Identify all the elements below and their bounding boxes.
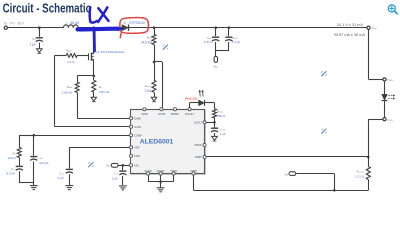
svg-text:LDOO: LDOO — [194, 120, 201, 124]
svg-text:GATE: GATE — [134, 125, 141, 129]
svg-text:560 Ω: 560 Ω — [217, 114, 226, 118]
svg-text:STL120N4LF6AG: STL120N4LF6AG — [101, 50, 126, 54]
svg-text:OVTB: OVTB — [158, 112, 165, 116]
svg-text:8.2 nF: 8.2 nF — [6, 172, 15, 176]
svg-text:1 µF: 1 µF — [58, 176, 64, 180]
svg-text:COMP: COMP — [134, 133, 142, 137]
svg-text:715 mΩ: 715 mΩ — [99, 90, 110, 94]
svg-text:TPAD: TPAD — [170, 169, 177, 173]
svg-text:Circuit - Schematic: Circuit - Schematic — [3, 2, 91, 15]
svg-text:2.2 Ω: 2.2 Ω — [67, 60, 75, 64]
svg-text:STPS2L40: STPS2L40 — [129, 21, 145, 25]
svg-text:Red LED: Red LED — [185, 96, 198, 100]
svg-text:VFBP: VFBP — [195, 155, 202, 159]
svg-text:68 µH: 68 µH — [70, 21, 79, 25]
svg-text:220 pF: 220 pF — [39, 161, 49, 165]
svg-text:1 µF: 1 µF — [220, 132, 226, 136]
svg-text:34.5 kΩ: 34.5 kΩ — [141, 40, 153, 44]
svg-text:2.21 Ω: 2.21 Ω — [355, 174, 365, 178]
svg-text:90.57 mA ± 36 mA: 90.57 mA ± 36 mA — [334, 33, 366, 37]
svg-text:PGND: PGND — [157, 169, 165, 173]
svg-text:Q1: Q1 — [95, 50, 99, 54]
svg-text:XFAULT: XFAULT — [185, 112, 195, 116]
svg-text:1 µF: 1 µF — [112, 176, 118, 180]
svg-text:ADIM: ADIM — [141, 112, 147, 116]
svg-text:470 nF: 470 nF — [204, 40, 214, 44]
svg-text:DIMB: DIMB — [134, 116, 141, 120]
svg-text:7 kΩ: 7 kΩ — [144, 89, 151, 93]
svg-text:1 µF: 1 µF — [30, 42, 36, 46]
svg-text:PWMO: PWMO — [171, 112, 179, 116]
svg-text:VIN: VIN — [134, 163, 138, 167]
svg-text:120 Ω: 120 Ω — [8, 156, 17, 160]
svg-text:SGND: SGND — [144, 169, 152, 173]
svg-text:2.2 µF: 2.2 µF — [232, 40, 241, 44]
svg-text:VSR: VSR — [134, 145, 139, 149]
svg-text:10.1 V ± 31 mV: 10.1 V ± 31 mV — [337, 23, 364, 27]
svg-text:Vin 9 V - 16 V: Vin 9 V - 16 V — [4, 21, 25, 25]
svg-text:ALED6001: ALED6001 — [140, 138, 174, 145]
svg-text:PWMI: PWMI — [194, 143, 201, 147]
svg-text:2.05 kΩ: 2.05 kΩ — [62, 90, 73, 94]
svg-text:FSW: FSW — [134, 154, 140, 158]
svg-text:VFBN: VFBN — [190, 169, 197, 173]
